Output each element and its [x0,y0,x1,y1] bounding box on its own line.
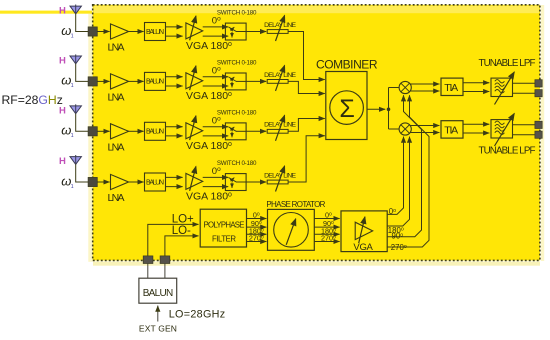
svg-text:BALUN: BALUN [143,288,174,299]
svg-text:TUNABLE LPF: TUNABLE LPF [479,58,536,69]
delay line row 3 [267,115,288,141]
wire LO 270deg to mixer Q (path up with crossover) [387,95,429,247]
wire ext gen arrow into balun [157,306,159,322]
pad RF input row 4 [88,177,97,186]
pad LO- [160,256,170,264]
wire LO 180deg to mixer I (path up) [387,137,409,226]
svg-text:VGA 180o: VGA 180o [186,90,232,102]
wire mixer to TIA bottom (pair) [410,125,439,127]
wire LO- pad to balun [164,264,166,279]
wire LO 90deg to mixer Q (path up with crossover) [387,95,421,237]
svg-text:LO+: LO+ [172,213,194,225]
svg-text:VGA 180o: VGA 180o [186,40,232,52]
wire antenna feed row 4 [76,164,89,182]
svg-text:LNA: LNA [108,192,125,204]
LNA row 4 [111,174,129,189]
svg-text:Σ: Σ [339,95,354,123]
wire rotator 0deg to LO VGA [314,218,339,220]
wire VGA to switch row 2 (pair) [203,76,229,78]
chip boundary yellow background [93,5,540,261]
svg-text:BALUN: BALUN [146,29,164,36]
TIA top [441,78,463,95]
LO VGA block [341,211,387,252]
antenna ANT4 [70,155,81,164]
wire switch to delay line row 1 [246,31,266,33]
svg-text:SWITCH 0-180: SWITCH 0-180 [217,109,257,116]
svg-text:1: 1 [71,83,74,89]
delay line row 1 [267,16,288,42]
wire mixer to TIA top (pair) [410,83,439,85]
wire LNA to balun row 1 [129,31,144,33]
wire VGA to switch row 3 (pair) [203,126,229,128]
wire switch to delay line row 3 [246,130,266,132]
pad RF input row 3 [88,127,97,136]
wire balun to VGA row 3 (pair) [166,126,183,128]
node combiner output junction [387,108,391,112]
svg-text:LO-: LO- [172,225,191,237]
svg-text:H: H [59,6,66,17]
wire balun to VGA row 4 (pair) [166,176,183,178]
switch SPDT row 1 [225,23,246,40]
wire VGA to switch row 4 (pair) [203,176,229,178]
wire rotator 270deg to LO VGA [314,241,339,243]
wire polyphase 90deg to rotator [247,226,267,228]
wire row 3 delay to combiner input 3 [288,119,325,132]
tunable LPF top [491,72,514,105]
pad RF input row 1 [88,27,97,36]
svg-text:BALUN: BALUN [146,129,164,136]
delay line row 4 [267,166,288,192]
switch SPDT row 3 [225,123,246,140]
tunable LPF bottom [491,114,514,147]
polyphase filter block [200,209,246,247]
svg-text:COMBINER: COMBINER [316,57,378,71]
wire row 2 delay to combiner input 2 [288,81,325,93]
mixer MIX1 (top) [399,81,411,93]
lighter band top inside box (jpeg ghost) [94,6,540,14]
wire antenna feed row 2 [76,64,89,82]
VGA amplifier row 1 [186,16,203,40]
wire pad to LNA row 2 [97,80,109,82]
wire antenna feed row 1 [76,14,89,32]
wire LO 0deg to mixer I (path up) [387,137,403,215]
wire antenna feed row 3 [76,114,89,132]
antenna ANT2 [70,54,81,63]
switch SPDT row 2 [225,73,246,90]
balun row 4 [145,173,166,191]
TIA bottom [441,121,463,138]
wire TIA to LPF bottom (pair) [463,123,489,125]
wire polyphase 270deg to rotator [247,241,267,243]
wire RF split vertical [388,88,390,130]
delay line row 2 [267,65,288,91]
wire pad to LNA row 4 [97,181,109,183]
svg-text:TUNABLE LPF: TUNABLE LPF [479,146,536,157]
halo left of border (jpeg ghost) [88,14,92,262]
svg-text:POLYPHASE: POLYPHASE [204,221,245,230]
svg-text:SWITCH 0-180: SWITCH 0-180 [217,160,257,167]
phase rotator block [268,209,315,250]
svg-text:SWITCH 0-180: SWITCH 0-180 [217,59,257,66]
balun row 3 [145,122,166,140]
svg-text:VGA 180o: VGA 180o [186,191,232,203]
wire row 1 delay to combiner input 1 [288,32,325,80]
halo right of border (jpeg ghost) [541,5,544,261]
svg-text:1: 1 [71,133,74,139]
svg-text:H: H [59,55,66,66]
wire polyphase 180deg to rotator [247,233,267,235]
wire LPF to output pads top (pair) [513,82,535,84]
LNA row 2 [111,74,129,89]
LNA row 1 [111,24,129,39]
svg-text:FILTER: FILTER [212,235,236,244]
wire row 4 delay to combiner input 4 [288,136,325,182]
svg-text:TIA: TIA [444,82,458,94]
pad IF output top (pair) [535,80,542,87]
wire TIA to LPF top (pair) [463,82,489,84]
svg-text:LNA: LNA [108,141,125,153]
wire LO+ pad to balun [147,264,149,279]
pad LO+ [143,256,153,264]
LNA row 3 [111,124,129,139]
svg-text:H: H [59,156,66,167]
svg-text:LNA: LNA [108,91,125,103]
svg-text:BALUN: BALUN [146,179,164,186]
svg-text:1: 1 [71,184,74,190]
svg-text:LNA: LNA [108,42,125,54]
wire combiner output [367,108,385,110]
combiner block [326,72,367,140]
stray yellow stripe top-left [0,11,92,14]
wire rotator 180deg to LO VGA [314,233,339,235]
wire polyphase 0deg to rotator [247,218,267,220]
wire LNA to balun row 2 [129,80,144,82]
wire to mixer Q [389,128,400,130]
wire switch to delay line row 4 [246,181,266,183]
wire pad to LNA row 3 [97,130,109,132]
combiner sigma symbol [330,91,364,125]
svg-text:SWITCH 0-180: SWITCH 0-180 [217,10,257,17]
antenna ANT3 [70,104,81,113]
VGA amplifier row 2 [186,66,203,90]
balun row 2 [145,72,166,90]
wire rotator 90deg to LO VGA [314,226,339,228]
balun LO [139,278,177,303]
wire LPF to output pads bottom (pair) [513,124,535,126]
antenna ANT1 [70,5,81,14]
halo below border (jpeg ghost) [93,262,540,266]
wire LNA to balun row 4 [129,181,144,183]
svg-text:VGA 180o: VGA 180o [186,140,232,152]
pad RF input row 2 [88,77,97,86]
wire LNA to balun row 3 [129,130,144,132]
VGA amplifier row 3 [186,116,203,140]
switch SPDT row 4 [225,174,246,191]
svg-text:VGA: VGA [353,242,373,253]
wire LO- input [165,236,199,256]
wire balun to VGA row 2 (pair) [166,76,183,78]
mixer MIX2 (bottom) [399,123,411,135]
svg-text:BALUN: BALUN [146,79,164,86]
svg-text:PHASE ROTATOR: PHASE ROTATOR [266,200,325,209]
svg-text:TIA: TIA [444,125,458,137]
wire switch to delay line row 2 [246,80,266,82]
wire to mixer I [389,87,400,89]
wire balun to VGA row 1 (pair) [166,26,183,28]
svg-text:RF=28GHz: RF=28GHz [2,93,63,107]
VGA amplifier row 4 [186,167,203,191]
chip boundary dashed border [93,5,540,261]
svg-text:EXT GEN: EXT GEN [139,324,177,334]
pad IF output bottom (pair) [535,121,542,128]
balun row 1 [145,23,166,41]
wire LO+ input [148,224,199,256]
wire pad to LNA row 1 [97,31,109,33]
svg-text:LO=28GHz: LO=28GHz [169,309,226,321]
svg-text:1: 1 [71,33,74,39]
wire VGA to switch row 1 (pair) [203,26,229,28]
